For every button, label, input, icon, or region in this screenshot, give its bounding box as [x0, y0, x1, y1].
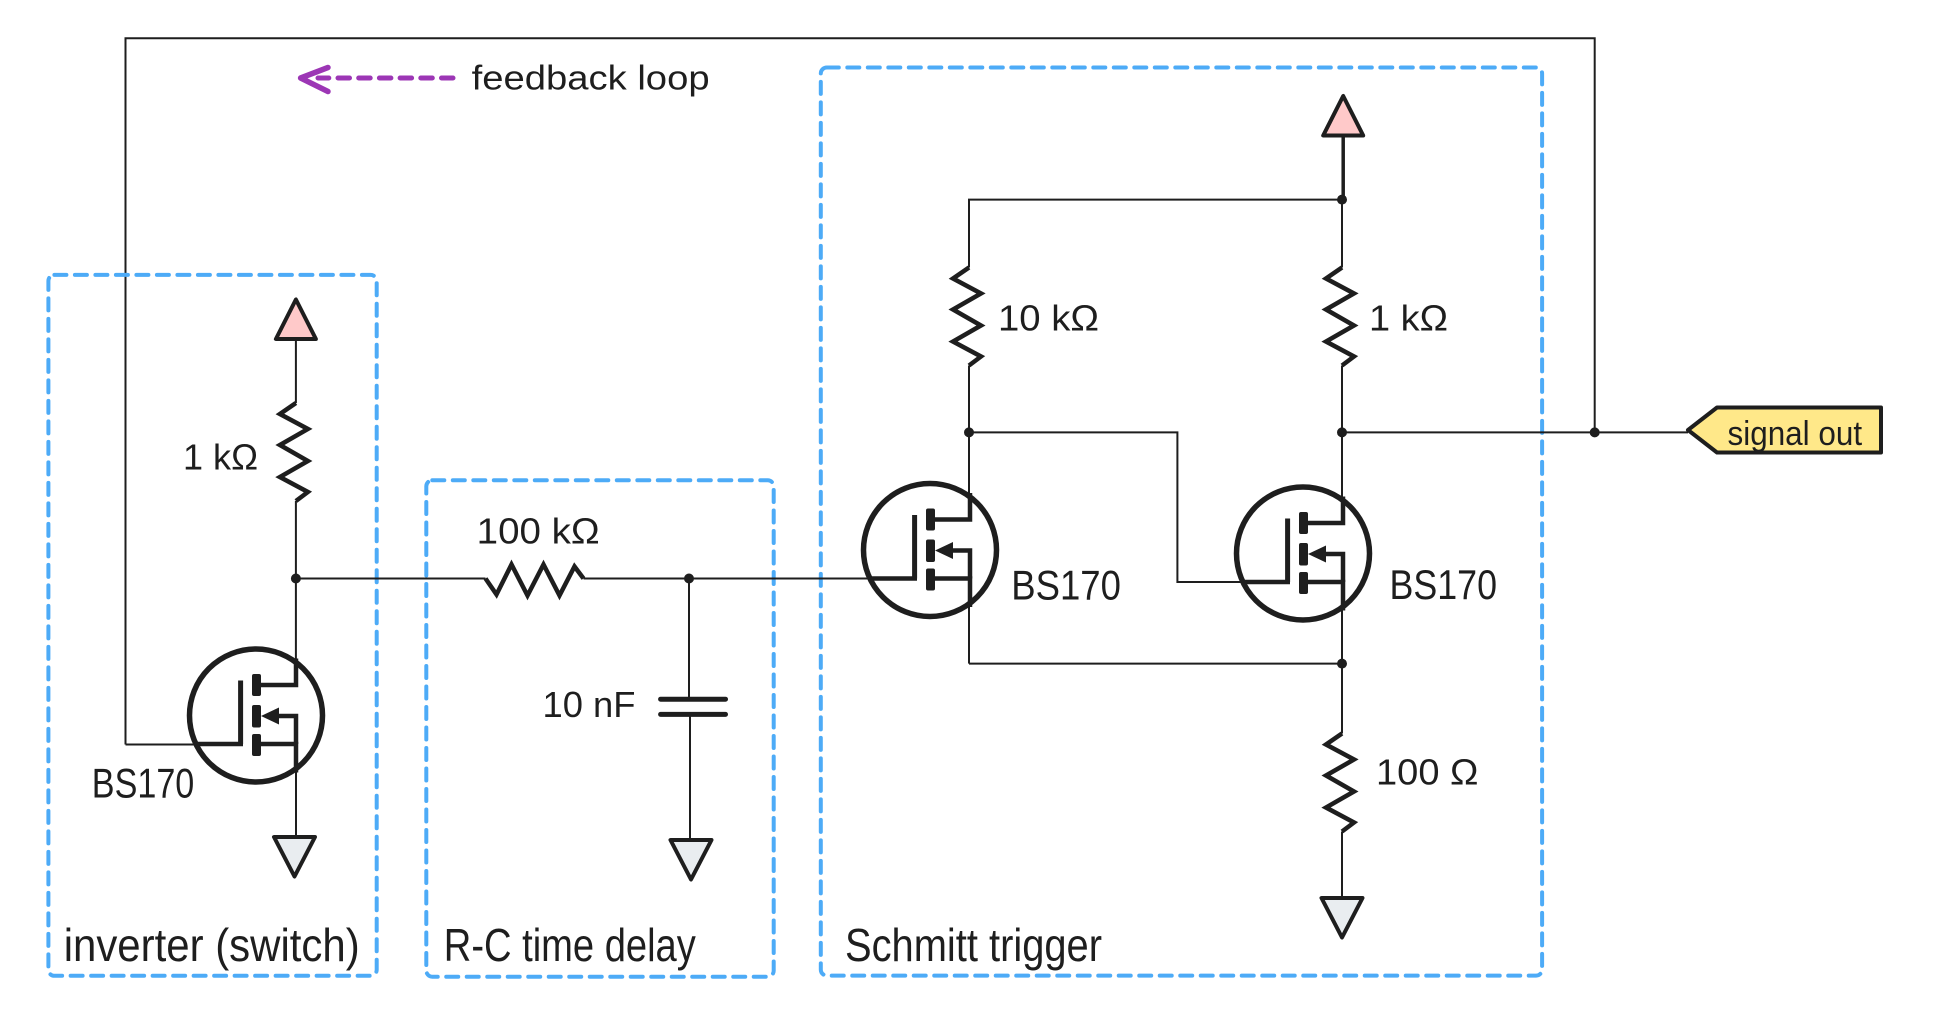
wire: RC node down to capacitor [688, 579, 690, 700]
ground (inverter) [274, 837, 315, 877]
wire: R5 to ground [1341, 832, 1343, 899]
svg-text:100 Ω: 100 Ω [1376, 752, 1479, 793]
svg-text:1 kΩ: 1 kΩ [1369, 298, 1448, 339]
wire: common source to R5 [1341, 664, 1343, 734]
transistor Q2 BS170 (Schmitt left) [864, 484, 997, 617]
wire: VCC to R1 [295, 339, 297, 403]
ground (RC) [671, 840, 712, 880]
capacitor C1 10 nF [661, 699, 726, 714]
node: inverter output [291, 574, 301, 584]
wire: Q3 source down [1341, 606, 1343, 664]
wire: VCC stub to rail node [1341, 136, 1345, 200]
node A: Q2 drain [964, 427, 974, 437]
resistor R3 10 kOhm [953, 268, 981, 366]
wire: inverter node to 100k resistor [296, 578, 486, 580]
wire: 1k branch from rail [1341, 200, 1343, 268]
wire: R1 to drain node [295, 501, 297, 579]
wire: VCC rail to left branch [969, 200, 1342, 268]
svg-text:signal out: signal out [1728, 415, 1863, 453]
wire: common source rail [969, 663, 1342, 665]
node: feedback junction [1590, 427, 1600, 437]
wire: R3 to node A [968, 366, 970, 433]
power VCC (Schmitt) [1323, 96, 1363, 136]
wire: R2 to RC node to Q2 gate [584, 578, 881, 580]
wire: Q1 gate lead from feedback wire [126, 744, 244, 746]
resistor R2 100 kOhm [486, 565, 584, 596]
node: VCC rail [1337, 195, 1347, 205]
wire: node A down to Q2 drain [968, 432, 970, 497]
svg-text:BS170: BS170 [1011, 562, 1121, 609]
svg-text:BS170: BS170 [92, 759, 195, 806]
node: common source [1337, 659, 1347, 669]
wire: feedback loop (left vertical, top horizontal, right vertical) [126, 38, 1595, 744]
signal out tag [1688, 408, 1881, 453]
wire: drain node down to Q1 drain [295, 579, 297, 685]
node: RC [684, 574, 694, 584]
svg-text:BS170: BS170 [1390, 561, 1498, 608]
box: inverter (switch) [48, 275, 376, 976]
svg-text:10 kΩ: 10 kΩ [998, 298, 1099, 339]
box: R-C time delay [426, 480, 773, 976]
node B: output [1337, 427, 1347, 437]
wire: output node to signal out [1342, 431, 1688, 433]
wire: node B down to Q3 drain [1341, 432, 1343, 500]
resistor R5 100 Ohm [1326, 734, 1354, 832]
wire: Q2 source down [968, 602, 970, 664]
svg-text:feedback loop: feedback loop [472, 59, 710, 97]
transistor Q3 BS170 (Schmitt right) [1237, 487, 1370, 620]
svg-text:10 nF: 10 nF [543, 684, 636, 725]
power VCC (inverter) [276, 300, 316, 340]
resistor R4 1 kOhm (Schmitt) [1326, 268, 1354, 366]
svg-text:inverter (switch): inverter (switch) [64, 919, 360, 971]
wire: capacitor to ground [689, 714, 691, 840]
resistor R1 1 kOhm (inverter) [280, 403, 308, 501]
wire: Q1 source to ground [295, 765, 297, 837]
svg-text:R-C time delay: R-C time delay [444, 919, 696, 971]
box: Schmitt trigger [821, 68, 1542, 976]
svg-text:Schmitt trigger: Schmitt trigger [845, 919, 1102, 971]
feedback loop arrow (purple dashed) [301, 68, 453, 92]
svg-text:100 kΩ: 100 kΩ [477, 511, 600, 552]
wire: R4 to node B [1341, 366, 1343, 433]
transistor Q1 BS170 (inverter) [190, 649, 323, 782]
wire: cross-coupling node A to Q3 gate [969, 432, 1252, 582]
svg-text:1 kΩ: 1 kΩ [183, 437, 258, 478]
ground (Schmitt) [1322, 898, 1363, 938]
